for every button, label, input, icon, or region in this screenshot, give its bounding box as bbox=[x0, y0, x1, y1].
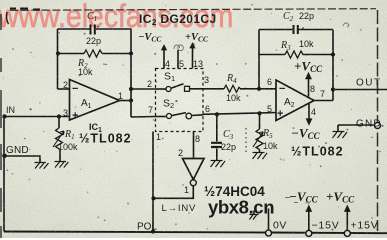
svg-text:ybx8.cn: ybx8.cn bbox=[208, 197, 274, 218]
